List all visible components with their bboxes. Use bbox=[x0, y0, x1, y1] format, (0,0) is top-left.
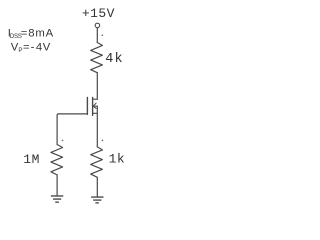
svg-text:1M: 1M bbox=[23, 152, 40, 167]
svg-text:4k: 4k bbox=[105, 52, 123, 67]
svg-text:1k: 1k bbox=[109, 152, 126, 167]
svg-text:VP=-4V: VP=-4V bbox=[11, 42, 51, 54]
svg-text:IDSS=8mA: IDSS=8mA bbox=[8, 28, 54, 40]
svg-text:+15V: +15V bbox=[82, 6, 115, 21]
